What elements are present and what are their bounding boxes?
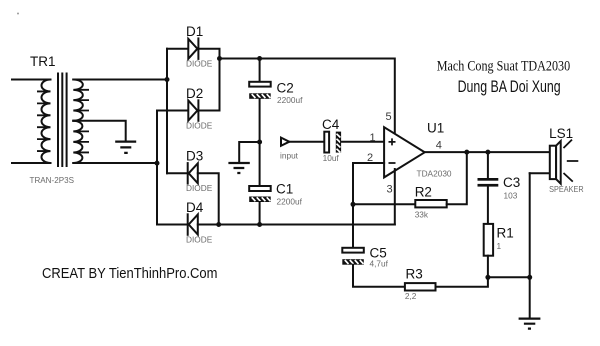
svg-text:R3: R3	[406, 267, 423, 282]
speaker LS1 label	[549, 126, 573, 141]
resistor R3 value 2,2	[405, 291, 417, 301]
wire C2 top stub	[259, 59, 261, 82]
svg-text:4: 4	[436, 140, 442, 152]
wire bus A vertical (top lead to D1/D3)	[166, 49, 168, 174]
resistor R1 label	[497, 226, 514, 241]
node -V rail junction	[216, 222, 221, 227]
transformer TR1 value TRAN-2P3S	[30, 175, 75, 185]
transformer TR1 core	[58, 74, 67, 167]
resistor R1	[484, 224, 493, 256]
wire C1 bottom stub	[259, 202, 261, 225]
wire C3 to R1	[487, 187, 489, 224]
wire D3 anode to -V node	[198, 173, 219, 224]
capacitor C1	[249, 186, 271, 202]
svg-text:D3: D3	[186, 149, 203, 164]
wire TR1 secondary bottom lead to bus B	[73, 162, 157, 164]
input terminal arrow	[281, 138, 289, 146]
node mid-rail ground junction	[257, 140, 262, 145]
ground center tap	[115, 142, 136, 153]
diode D3 value DIODE	[186, 183, 213, 193]
pin number 3	[387, 183, 393, 195]
node bus A / top lead junction	[165, 77, 170, 82]
svg-text:DIODE: DIODE	[186, 183, 213, 193]
node output/C3 junction	[485, 150, 490, 155]
svg-text:C2: C2	[277, 81, 294, 96]
svg-text:2200uf: 2200uf	[277, 95, 303, 105]
credit text	[42, 265, 218, 282]
capacitor C3	[478, 178, 499, 187]
capacitor C5 value 4,7uf	[370, 259, 389, 269]
svg-text:SPEAKER: SPEAKER	[549, 184, 584, 194]
wire TR1 primary top lead	[12, 79, 51, 81]
wire -V rail to pin 3	[219, 224, 395, 226]
svg-text:C4: C4	[322, 117, 340, 132]
capacitor C3 value 103	[504, 191, 518, 201]
svg-text:103: 103	[504, 191, 518, 201]
svg-text:R1: R1	[497, 226, 514, 241]
wire D1 anode	[167, 48, 188, 50]
svg-text:1: 1	[370, 132, 376, 144]
diode D1 label	[186, 24, 203, 39]
wire output rail	[425, 151, 550, 153]
svg-text:2200uf: 2200uf	[277, 197, 303, 207]
wire R3 to ground node	[436, 277, 488, 287]
svg-text:10uf: 10uf	[323, 153, 340, 163]
resistor R2 value 33k	[415, 209, 429, 219]
title line 1 (serif)	[437, 58, 571, 74]
svg-text:3: 3	[387, 183, 393, 195]
svg-text:TDA2030: TDA2030	[417, 169, 452, 179]
speaker LS1	[550, 141, 561, 184]
svg-text:5: 5	[386, 111, 392, 123]
diode D4	[188, 214, 198, 235]
capacitor C2 label	[277, 81, 294, 96]
wire +V rail to pin 5	[220, 59, 395, 137]
svg-text:TRAN-2P3S: TRAN-2P3S	[30, 175, 75, 185]
pin number 2	[367, 152, 373, 164]
capacitor C3 label	[503, 175, 520, 190]
wire TR1 secondary top lead to bus A	[73, 79, 167, 81]
capacitor C1 value 2200uf	[277, 197, 303, 207]
node C1 bottom junction	[257, 222, 262, 227]
wire D3 cathode (to bus A)	[167, 172, 188, 174]
diode D4 value DIODE	[186, 235, 213, 245]
transformer TR1 label	[30, 54, 56, 69]
capacitor C4	[324, 132, 341, 153]
svg-text:R2: R2	[415, 185, 432, 200]
diode D2 label	[186, 86, 203, 101]
resistor R2 label	[415, 185, 432, 200]
wire C4 to pin 1	[341, 141, 384, 143]
svg-text:4,7uf: 4,7uf	[370, 259, 389, 269]
svg-text:D2: D2	[186, 86, 203, 101]
capacitor C1 label	[276, 182, 293, 197]
svg-text:D1: D1	[186, 24, 203, 39]
ground mid-rail	[228, 163, 249, 173]
svg-text:1: 1	[497, 241, 502, 251]
svg-text:C1: C1	[276, 182, 293, 197]
wire R2 to output	[447, 152, 467, 204]
op-amp U1 label	[427, 121, 444, 136]
node R1/R3 junction	[485, 275, 490, 280]
wire pin 2 to feedback node and down to C5	[353, 163, 384, 248]
svg-text:TR1: TR1	[30, 54, 56, 69]
pin number 5	[386, 111, 392, 123]
transformer TR1 secondary winding lower	[73, 121, 89, 163]
op-amp U1 value TDA2030	[417, 169, 452, 179]
svg-text:33k: 33k	[415, 209, 429, 219]
capacitor C5 label	[370, 246, 387, 261]
diode D3 label	[186, 149, 203, 164]
wire feedback node to R2	[353, 203, 415, 205]
wire D4 cathode (to bus B)	[157, 224, 188, 226]
capacitor C5	[342, 248, 364, 265]
svg-text:LS1: LS1	[549, 126, 573, 141]
capacitor C2	[249, 82, 271, 99]
svg-text:DIODE: DIODE	[186, 120, 213, 130]
resistor R3 label	[406, 267, 423, 282]
transformer TR1 primary winding	[37, 80, 51, 164]
capacitor C4 value 10uf	[323, 153, 340, 163]
wire TR1 primary bottom lead	[12, 162, 51, 164]
resistor R1 value 1	[497, 241, 502, 251]
wire C5 to R3	[353, 265, 405, 287]
input label	[280, 151, 299, 161]
speaker LS1 value SPEAKER	[549, 184, 584, 194]
resistor R2	[415, 200, 446, 207]
wire junction to speaker return	[488, 276, 530, 278]
svg-text:input: input	[280, 151, 299, 161]
title line 2	[458, 78, 561, 96]
svg-text:DIODE: DIODE	[186, 235, 213, 245]
svg-text:CREAT BY TienThinhPro.Com: CREAT BY TienThinhPro.Com	[42, 265, 218, 282]
svg-text:Dung BA Doi Xung: Dung BA Doi Xung	[458, 78, 561, 96]
op-amp U1	[384, 127, 425, 177]
wire R1 bottom stub	[487, 256, 489, 278]
diode D3	[188, 163, 198, 184]
svg-text:D4: D4	[186, 200, 204, 215]
svg-text:U1: U1	[427, 121, 444, 136]
node feedback junction	[351, 202, 356, 207]
pin number 4	[436, 140, 442, 152]
pin number 1	[370, 132, 376, 144]
wire C3 top stub	[487, 152, 489, 178]
wire input to C4	[289, 141, 324, 143]
wire C2 bottom to C1 top	[259, 99, 261, 186]
ground main	[519, 319, 541, 329]
wire bus B vertical (bottom lead to D2/D4)	[156, 111, 158, 225]
svg-text:DIODE: DIODE	[186, 58, 213, 68]
diode D2 value DIODE	[186, 120, 213, 130]
node C2 top junction	[257, 56, 262, 61]
wire D4 anode	[198, 224, 219, 226]
wire D2 cathode	[198, 110, 219, 112]
stray speck top-left	[17, 13, 19, 15]
wire D2 anode	[157, 110, 188, 112]
wire to mid ground	[239, 142, 259, 163]
svg-text:2,2: 2,2	[405, 291, 417, 301]
node output/R2 junction	[464, 150, 469, 155]
node bus B / bottom lead junction	[155, 161, 160, 166]
diode D4 label	[186, 200, 204, 215]
svg-text:C3: C3	[503, 175, 520, 190]
node speaker return junction	[527, 275, 532, 280]
node +V rail junction	[217, 56, 222, 61]
wire speaker return vertical	[529, 173, 531, 318]
capacitor C2 value 2200uf	[277, 95, 303, 105]
diode D1 value DIODE	[186, 58, 213, 68]
wire speaker bottom lead	[530, 172, 550, 174]
speaker LS1 sound waves	[564, 140, 579, 182]
diode D1	[188, 38, 198, 59]
diode D2	[188, 100, 198, 121]
wire TR1 center tap	[73, 121, 125, 141]
wire D1 cathode to +V node	[198, 49, 219, 111]
resistor R3	[405, 283, 436, 290]
transformer TR1 secondary winding upper	[73, 80, 89, 121]
capacitor C4 label	[322, 117, 340, 132]
wire pin 3 stub	[394, 169, 396, 225]
svg-text:Mach Cong Suat TDA2030: Mach Cong Suat TDA2030	[437, 58, 571, 74]
